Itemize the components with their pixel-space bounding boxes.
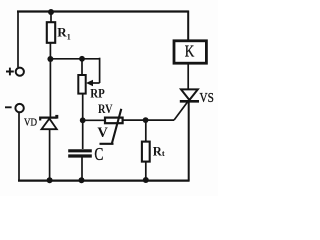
thyristor VS triangle [181, 89, 198, 100]
node A junction dot [47, 56, 53, 62]
terminal - (negative input) [15, 104, 23, 112]
wire Rt bottom lead [145, 162, 147, 181]
varistor RV body [105, 118, 123, 124]
junction dot VD bottom rail [47, 177, 53, 183]
junction dot RP top [79, 56, 85, 62]
svg-text:VS: VS [200, 91, 214, 106]
junction dot Rt branch [143, 117, 149, 123]
capacitor C bottom plate [68, 154, 92, 157]
terminal + (positive input) [16, 68, 24, 76]
svg-text:C: C [94, 144, 103, 164]
wire top rail corner down to relay K [187, 11, 189, 40]
svg-text:V: V [97, 125, 108, 141]
zener diode VD cathode bar [40, 118, 57, 121]
wire R1 top lead [50, 12, 52, 22]
wire bottom rail [18, 180, 190, 182]
resistor Rt [142, 142, 150, 162]
svg-text:Rt: Rt [153, 144, 165, 158]
potentiometer RP wiper arrow [89, 82, 100, 84]
capacitor C top plate [68, 149, 92, 152]
label + [6, 68, 14, 76]
junction dot C bottom rail [79, 177, 85, 183]
svg-text:K: K [185, 42, 195, 61]
svg-text:RP: RP [90, 86, 105, 101]
resistor R1 [47, 22, 55, 43]
wire Rt top lead [145, 120, 147, 141]
wire VS cathode down to bottom rail [188, 101, 190, 180]
junction dot Rt bottom rail [143, 177, 149, 183]
junction dot top rail / R1 [48, 9, 54, 15]
wire left vertical (top rail to + terminal) [17, 11, 19, 68]
wire RV right to gate bend [123, 119, 174, 121]
wire R1 bottom lead to node A [49, 43, 51, 60]
potentiometer RP body [78, 75, 85, 94]
wire VD bottom lead [49, 129, 51, 180]
relay K box [174, 41, 206, 63]
svg-text:RV: RV [98, 101, 113, 116]
wire RP bottom lead down to capacitor [82, 94, 84, 149]
thyristor VS cathode bar [180, 100, 199, 103]
wire RP right branch down to wiper [99, 58, 101, 83]
label - [5, 106, 12, 108]
varistor RV diagonal stroke [100, 109, 122, 144]
wire VD top lead from node A [49, 59, 51, 117]
wire node A horizontal to RP branch [50, 58, 99, 60]
wire RP top lead [81, 59, 83, 75]
zener diode VD triangle [42, 119, 57, 130]
wire gate diagonal to VS [174, 102, 188, 120]
svg-text:VD: VD [24, 117, 37, 129]
wire top rail [17, 10, 189, 12]
wire K to VS anode [187, 63, 189, 88]
wire C bottom lead [81, 158, 83, 181]
wire from junction to RV left [83, 119, 105, 121]
svg-text:R1: R1 [57, 25, 70, 42]
junction dot RV branch [80, 117, 86, 123]
wire from - terminal down to bottom rail [18, 112, 20, 181]
